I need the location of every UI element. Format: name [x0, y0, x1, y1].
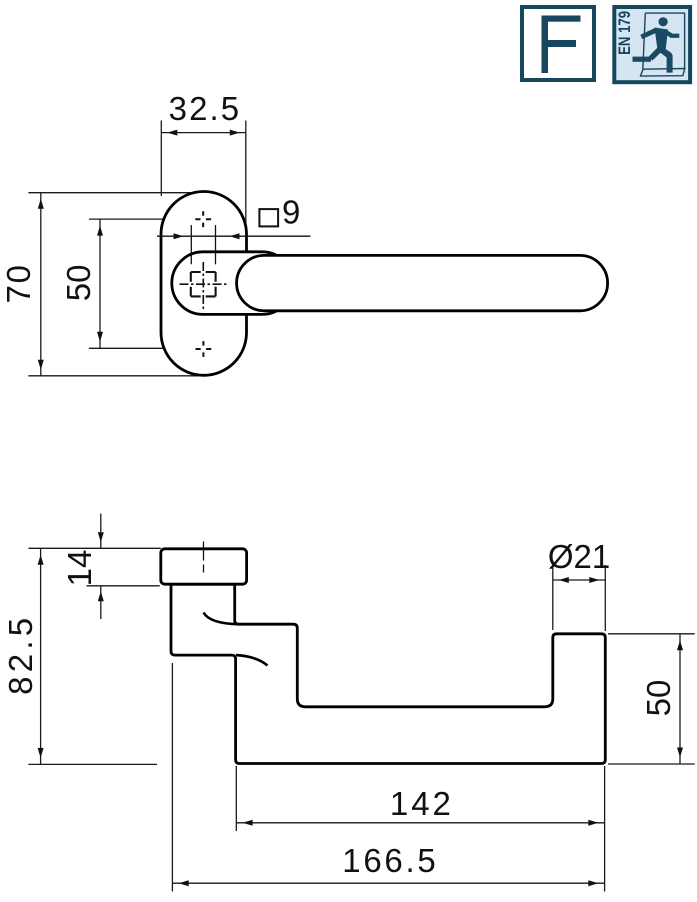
svg-text:82.5: 82.5	[2, 618, 39, 695]
svg-text:70: 70	[0, 265, 37, 304]
svg-text:50: 50	[60, 265, 97, 302]
svg-text:50: 50	[640, 680, 677, 717]
svg-text:9: 9	[282, 194, 300, 231]
svg-text:EN 179: EN 179	[616, 11, 634, 55]
svg-text:Ø21: Ø21	[548, 538, 610, 575]
svg-text:166.5: 166.5	[342, 842, 436, 879]
svg-text:32.5: 32.5	[169, 90, 240, 127]
svg-text:14: 14	[61, 550, 98, 587]
svg-text:142: 142	[390, 785, 451, 822]
